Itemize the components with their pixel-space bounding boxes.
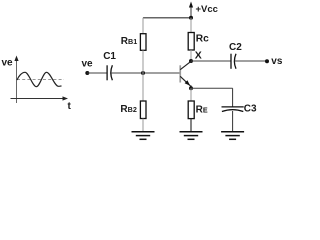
svg-text:C1: C1 bbox=[103, 51, 116, 62]
svg-text:ve: ve bbox=[82, 58, 94, 69]
svg-text:C3: C3 bbox=[244, 103, 257, 114]
svg-text:t: t bbox=[68, 101, 72, 112]
svg-text:RB2: RB2 bbox=[120, 104, 136, 115]
svg-text:RB1: RB1 bbox=[121, 36, 137, 47]
svg-text:ve: ve bbox=[2, 57, 14, 68]
svg-text:Rc: Rc bbox=[196, 34, 209, 45]
svg-text:RE: RE bbox=[196, 105, 208, 116]
svg-text:vs: vs bbox=[271, 56, 283, 67]
svg-text:+Vcc: +Vcc bbox=[196, 4, 218, 15]
svg-text:X: X bbox=[195, 50, 202, 62]
svg-text:C2: C2 bbox=[229, 42, 242, 53]
